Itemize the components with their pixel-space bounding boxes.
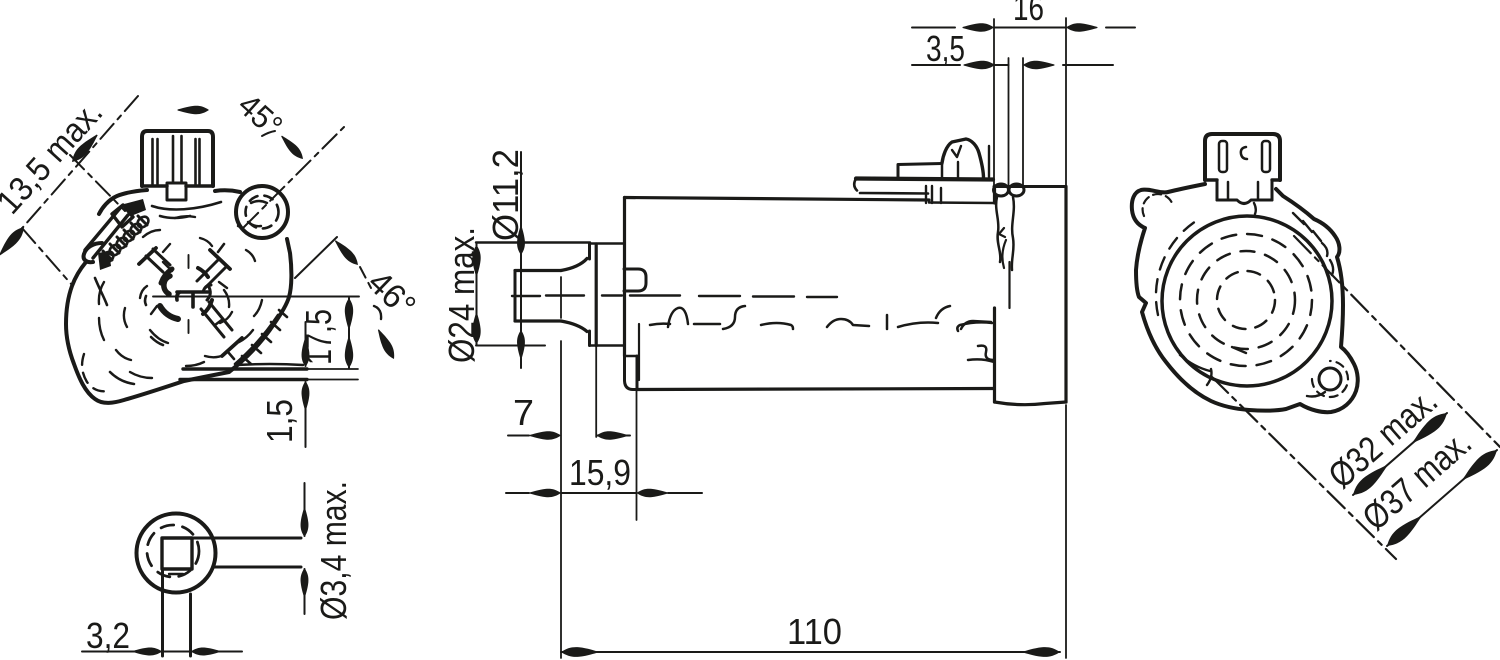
- svg-text:3,2: 3,2: [86, 615, 130, 656]
- svg-text:7: 7: [513, 392, 534, 433]
- svg-text:1,5: 1,5: [259, 399, 300, 443]
- svg-text:15,9: 15,9: [569, 452, 631, 493]
- svg-text:16: 16: [1013, 0, 1044, 28]
- svg-text:3,5: 3,5: [926, 28, 965, 69]
- svg-text:Ø3,4 max.: Ø3,4 max.: [313, 481, 354, 620]
- svg-text:Ø24 max.: Ø24 max.: [441, 227, 482, 363]
- svg-text:110: 110: [787, 611, 842, 652]
- svg-text:Ø11,2: Ø11,2: [485, 149, 526, 241]
